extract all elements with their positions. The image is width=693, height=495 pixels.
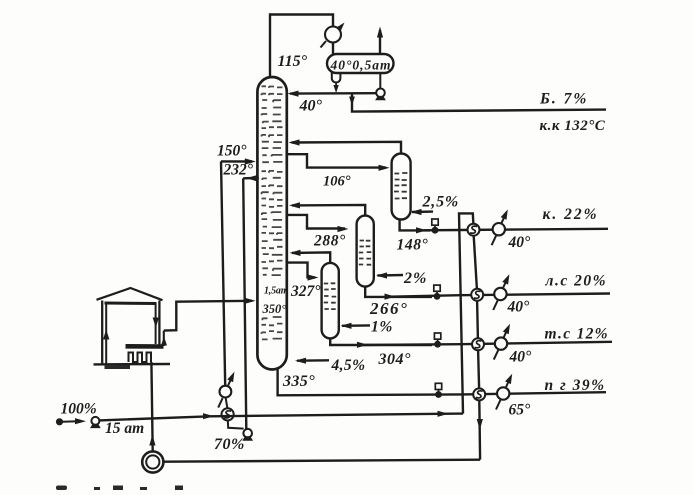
wire overhead product (benzine) line bbox=[352, 93, 606, 111]
wire furnace coil outlet riser bbox=[163, 331, 165, 346]
svg-text:4,5%: 4,5% bbox=[331, 357, 366, 374]
wire 327° drawoff to stripper K-4 bbox=[287, 263, 316, 278]
wire riser pump to furnace coil bbox=[151, 362, 152, 451]
caption fragment (cut off) bbox=[56, 486, 183, 491]
charge pump P-4 (double circle) bbox=[142, 451, 163, 472]
valve on л.с line bbox=[434, 285, 440, 291]
wire heavy solar product line т.с 12% bbox=[360, 342, 612, 345]
cooler X-2 on л.с line bbox=[493, 301, 497, 310]
furnace floor pit bbox=[105, 365, 131, 369]
svg-text:к. 22%: к. 22% bbox=[543, 206, 599, 223]
svg-text:288°: 288° bbox=[313, 233, 346, 250]
side stripper K-4 shell bbox=[322, 263, 339, 339]
wire light solar product line л.с 20% bbox=[390, 294, 610, 297]
wire crude riser to exchanger loop bbox=[459, 213, 473, 413]
svg-text:232°: 232° bbox=[223, 162, 254, 179]
cooler X-4 on residue line bbox=[496, 400, 500, 409]
drum left drain nozzle bbox=[332, 72, 341, 83]
svg-text:100%: 100% bbox=[61, 401, 97, 418]
furnace flue arrow down (right) bbox=[153, 318, 159, 328]
wire K-3 bottoms (л.с product) bbox=[365, 287, 432, 297]
svg-text:2,5%: 2,5% bbox=[422, 194, 460, 211]
main column K-1 shell bbox=[257, 77, 286, 370]
wire column bottoms 335° residue line bbox=[278, 369, 606, 396]
svg-text:40°: 40° bbox=[299, 98, 323, 115]
svg-text:327°: 327° bbox=[290, 283, 321, 300]
svg-text:304°: 304° bbox=[378, 351, 412, 368]
svg-text:п г 39%: п г 39% bbox=[545, 377, 606, 394]
svg-text:40°: 40° bbox=[507, 299, 531, 316]
steam stub 1% into K-4 bbox=[342, 324, 370, 327]
wire K-2 bottoms (kerosene product) bbox=[400, 220, 430, 231]
wire crude line to exchanger train bbox=[99, 414, 463, 421]
svg-text:106°: 106° bbox=[323, 174, 351, 190]
cooler X-1 on kerosene line bbox=[492, 236, 496, 245]
furnace flue arrow up (left) bbox=[103, 330, 109, 340]
svg-text:1%: 1% bbox=[371, 319, 393, 336]
furnace left wall bbox=[101, 301, 103, 365]
side stripper K-2 (kerosene) shell bbox=[392, 154, 411, 220]
reflux drum E-1 bbox=[327, 54, 394, 73]
wire drum drain to reflux line bbox=[335, 83, 337, 89]
svg-text:15 ат: 15 ат bbox=[105, 420, 144, 437]
wire drum vapour vent bbox=[379, 30, 381, 54]
wire pump suction line (bottom) bbox=[164, 460, 481, 462]
svg-text:335°: 335° bbox=[282, 373, 315, 390]
svg-text:148°: 148° bbox=[397, 237, 429, 254]
pumparound pump P-2 bbox=[243, 429, 252, 438]
heat exchanger T-1 (70%) on crude line bbox=[222, 408, 234, 420]
svg-text:Б. 7%: Б. 7% bbox=[539, 91, 588, 108]
stripper K-4 tray hatching bbox=[324, 283, 337, 309]
wire 150° pumparound return into column bbox=[221, 160, 252, 163]
reflux pump P-3 bbox=[376, 89, 385, 98]
wire stripper K-3 vapour return to column bbox=[292, 205, 365, 216]
wire exchanger chain (crude through T-2..T-5) bbox=[474, 236, 477, 289]
wire overhead vapour line from column top bbox=[270, 15, 333, 79]
steam stub 4,5% into column bottom bbox=[297, 359, 329, 362]
svg-text:40°: 40° bbox=[509, 349, 533, 366]
side stripper K-3 shell bbox=[357, 216, 374, 287]
svg-text:1,5ат: 1,5ат bbox=[264, 286, 289, 297]
wire furnace transfer line to column bbox=[164, 301, 252, 331]
wire drum bottom to reflux pump bbox=[379, 73, 381, 89]
heat exchanger T-2 on kerosene line bbox=[468, 224, 480, 236]
svg-text:266°: 266° bbox=[369, 299, 408, 318]
svg-text:40°0,5ат: 40°0,5ат bbox=[330, 58, 392, 73]
condenser/instrument I-1 on overhead line bbox=[325, 27, 341, 43]
wire 288° drawoff to stripper K-3 bbox=[287, 215, 346, 229]
wire pumparound riser (cold leg) bbox=[221, 161, 225, 385]
svg-text:40°: 40° bbox=[508, 234, 532, 251]
wire exchanger to pumparound pump bbox=[228, 421, 244, 429]
crude feed pump P-1 bbox=[91, 417, 99, 425]
wire crude feed 100% inlet bbox=[62, 420, 79, 422]
svg-text:л.с 20%: л.с 20% bbox=[545, 273, 608, 290]
crude feed start point bbox=[56, 418, 63, 425]
heat exchanger T-5 on residue line bbox=[473, 388, 485, 400]
wire kerosene product line к.22% bbox=[424, 229, 608, 231]
furnace F-1 roof bbox=[97, 288, 163, 300]
svg-text:65°: 65° bbox=[509, 402, 532, 419]
heat exchanger T-3 on л.с line bbox=[471, 289, 483, 301]
wire crude down to suction line bbox=[478, 401, 481, 460]
heat exchanger T-4 on т.с line bbox=[472, 338, 484, 350]
furnace tube bank bbox=[126, 344, 164, 349]
furnace floor bbox=[94, 363, 171, 366]
furnace right wall bbox=[158, 301, 160, 347]
svg-text:350°: 350° bbox=[262, 302, 287, 316]
valve on kerosene line bbox=[432, 219, 438, 225]
svg-text:115°: 115° bbox=[278, 53, 308, 70]
wire reflux 40° back to column top bbox=[290, 92, 376, 95]
cooler I-2 on pumparound bbox=[218, 398, 222, 407]
cooler X-3 on т.с line bbox=[494, 350, 498, 359]
valve on residue line bbox=[435, 383, 441, 389]
wire 232° pumparound draw from column bbox=[243, 177, 259, 180]
valve on т.с line bbox=[434, 333, 440, 339]
wire 106° drawoff to stripper K-2 bbox=[287, 154, 387, 167]
svg-text:к.к 132°С: к.к 132°С bbox=[540, 118, 606, 134]
wire K-4 bottoms (т.с product) bbox=[330, 338, 432, 345]
stripper K-2 tray hatching bbox=[394, 173, 407, 199]
wire stripper K-2 vapour return to column bbox=[292, 142, 402, 154]
wire stripper K-4 vapour return to column bbox=[292, 252, 330, 263]
furnace burner coil bbox=[129, 353, 152, 363]
wire pumparound downcomer (hot leg) bbox=[243, 178, 246, 428]
svg-text:70%: 70% bbox=[214, 436, 245, 453]
steam stub 2,5% into K-2 bbox=[412, 210, 433, 213]
svg-text:2%: 2% bbox=[403, 270, 427, 287]
main column tray hatching bbox=[262, 86, 283, 339]
stripper K-3 tray hatching bbox=[359, 241, 372, 265]
steam stub 2% into K-3 bbox=[378, 274, 404, 277]
furnace ceiling bbox=[105, 302, 157, 306]
svg-text:т.с 12%: т.с 12% bbox=[545, 326, 609, 343]
svg-text:150°: 150° bbox=[217, 143, 247, 160]
